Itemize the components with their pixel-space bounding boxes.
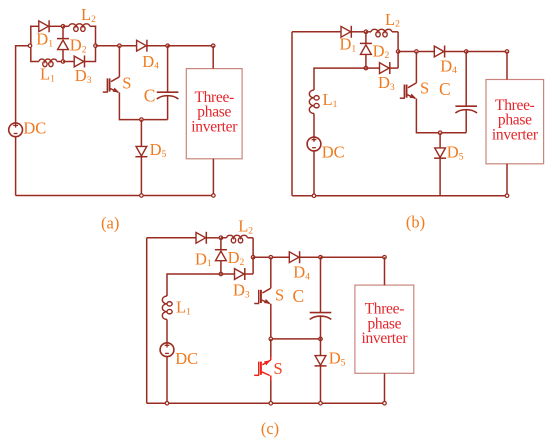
svg-text:S: S xyxy=(274,359,283,378)
node L2/D3 junction (b) xyxy=(396,50,400,54)
node between D1 and L2 (c) xyxy=(219,236,223,240)
node C top (c) xyxy=(319,255,323,259)
wire: inverter bottom lead (b) xyxy=(506,164,508,196)
capacitor C (b) xyxy=(455,52,477,133)
wire: left rail with stub from left node xyxy=(16,46,30,123)
diode D1 (c) xyxy=(196,232,221,244)
wire: lower branch left (c) xyxy=(167,274,221,296)
wire: inverter bottom lead (c) xyxy=(384,373,386,403)
node D5 bottom (c) xyxy=(319,401,323,405)
wire: mid rail to inverter corner (c) xyxy=(321,256,385,258)
svg-text:S: S xyxy=(275,286,284,305)
svg-text:DC: DC xyxy=(175,349,198,368)
inductor L2 (c) xyxy=(221,235,253,243)
wire: inverter top lead (c) xyxy=(384,257,386,285)
svg-text:(a): (a) xyxy=(101,214,119,233)
node inverter top corner (c) xyxy=(383,255,387,259)
three-phase inverter box (b) xyxy=(486,80,544,164)
svg-text:S: S xyxy=(420,79,429,98)
svg-text:DC: DC xyxy=(23,119,46,138)
node at C top (a) xyxy=(166,44,170,48)
diode D5 (c) xyxy=(315,339,327,403)
wire: mid rail C to inverter (b) xyxy=(466,51,507,53)
diode D4 (a) xyxy=(137,40,168,52)
wire: mid rail to D4 (b) xyxy=(398,51,434,53)
node at S collector junction (a) xyxy=(118,44,122,48)
wire: top rail from loop to D4 (a) xyxy=(96,45,137,47)
node at inverter top corner (a) xyxy=(211,44,215,48)
svg-text:S: S xyxy=(122,73,131,92)
wire: left rail (b) xyxy=(291,32,293,196)
diode D2 vertical (b) xyxy=(360,32,372,68)
diode D2 vertical (c) xyxy=(215,238,227,274)
wire: D3 corner up (c) xyxy=(252,257,254,274)
svg-text:(c): (c) xyxy=(261,419,279,438)
node S collector (c) xyxy=(269,255,273,259)
node left of loop (a) xyxy=(28,44,32,48)
wire: left rail (c) xyxy=(146,238,148,403)
three-phase inverter box (a) xyxy=(186,69,242,159)
transistor S upper (c) xyxy=(254,288,271,304)
inductor L1 (a) xyxy=(31,59,63,67)
svg-text:C: C xyxy=(293,286,305,306)
wire: top right corner down (b) xyxy=(397,32,399,52)
node DC bottom (b) xyxy=(312,194,316,198)
node bottom D5 (a) xyxy=(140,194,144,198)
diode D3 (b) xyxy=(366,62,398,74)
inductor L1 vertical (c) xyxy=(162,296,172,343)
node bottom right (c) xyxy=(383,401,387,405)
inductor L2 (b) xyxy=(366,29,398,37)
node S collector (b) xyxy=(415,50,419,54)
wire: mid rail to D4 (c) xyxy=(253,256,289,258)
inductor L2 (a) xyxy=(63,24,96,32)
DC source (a) xyxy=(9,123,23,137)
node D5 top junction (b) xyxy=(438,131,442,135)
node D2/D3 junction (b) xyxy=(364,66,368,70)
transistor S (a) xyxy=(103,77,120,93)
node L2/D3 junction (c) xyxy=(251,255,255,259)
node bottom right (b) xyxy=(505,194,509,198)
svg-text:inverter: inverter xyxy=(191,118,238,135)
transistor S (b) xyxy=(400,83,417,99)
wire: S emitter down and bottom link to C (a) xyxy=(119,92,167,119)
node bottom right (a) xyxy=(212,194,216,198)
wire: inverter bottom lead (a) xyxy=(212,159,214,196)
wire: top rail left part (b) xyxy=(292,31,341,33)
inductor L1 vertical (b) xyxy=(309,90,319,137)
wire: lower branch left (b) xyxy=(314,68,366,90)
svg-text:DC: DC xyxy=(322,142,345,161)
svg-text:inverter: inverter xyxy=(361,330,408,347)
diode D3 (a) xyxy=(63,56,96,68)
wire: top rail from C to inverter corner (a) xyxy=(168,45,214,47)
wire: inverter top lead (a) xyxy=(212,46,214,69)
svg-text:inverter: inverter xyxy=(492,126,539,143)
wire: DC down to rail (c) xyxy=(166,357,168,404)
diode D2 vertical (a) xyxy=(57,26,69,61)
node C top (b) xyxy=(464,50,468,54)
node DC bottom (c) xyxy=(165,401,169,405)
wire: top right corner down (c) xyxy=(252,238,254,257)
wire: S collector lead (a) xyxy=(118,46,120,77)
wire: top rail left part (c) xyxy=(147,237,196,239)
diode D3 (c) xyxy=(221,268,253,280)
wire: S emitter down to bottom link (b) xyxy=(416,99,466,133)
svg-text:C: C xyxy=(144,85,156,105)
wire: loop left vertical xyxy=(30,26,32,63)
DC source (c) xyxy=(160,343,174,357)
capacitor C (c) xyxy=(310,257,332,339)
node A between D1 and L2 (a) xyxy=(61,25,65,29)
wire: upper S collector lead (c) xyxy=(270,257,272,288)
diode D1 (b) xyxy=(341,26,366,38)
wire: loop right vertical xyxy=(95,26,97,63)
wire: inverter top lead (b) xyxy=(506,52,508,80)
diode D1 (a) xyxy=(30,20,63,32)
wire: S collector lead (b) xyxy=(415,52,417,83)
node between D1 and L2 (b) xyxy=(364,30,368,34)
node right of loop (a) xyxy=(94,44,98,48)
wire: bottom rail (c) xyxy=(147,402,385,404)
diode D5 (a) xyxy=(135,120,147,196)
three-phase inverter box (c) xyxy=(355,285,414,373)
diode D4 (c) xyxy=(289,251,320,263)
svg-text:C: C xyxy=(439,79,451,99)
capacitor C (a) xyxy=(157,46,179,120)
node red S bottom (c) xyxy=(269,401,273,405)
node inverter top corner (b) xyxy=(505,50,509,54)
wire: upper S emitter to mid link (c) xyxy=(271,304,321,339)
wire: red S bottom lead (c) xyxy=(270,381,272,404)
wire: D3 up to junction (b) xyxy=(397,52,399,69)
diode D4 (b) xyxy=(434,46,466,58)
DC source (b) xyxy=(307,137,321,151)
wire: bottom rail (a) xyxy=(16,195,214,197)
svg-text:(b): (b) xyxy=(406,213,425,232)
wire: bottom rail (b) xyxy=(292,195,507,197)
diode D5 (b) xyxy=(434,133,446,196)
transistor S red (c) xyxy=(270,357,272,361)
node at D5 top junction (a) xyxy=(140,118,144,122)
node mid link left (c) xyxy=(269,337,273,341)
node D2/D3 junction (c) xyxy=(219,272,223,276)
wire: left rail below DC source xyxy=(15,137,17,196)
wire: DC down to rail (b) xyxy=(313,151,315,196)
node mid link right / C bottom (c) xyxy=(319,337,323,341)
node B between L1 and D3 (a) xyxy=(61,60,65,64)
wire: red S collector lead (c) xyxy=(270,339,272,357)
